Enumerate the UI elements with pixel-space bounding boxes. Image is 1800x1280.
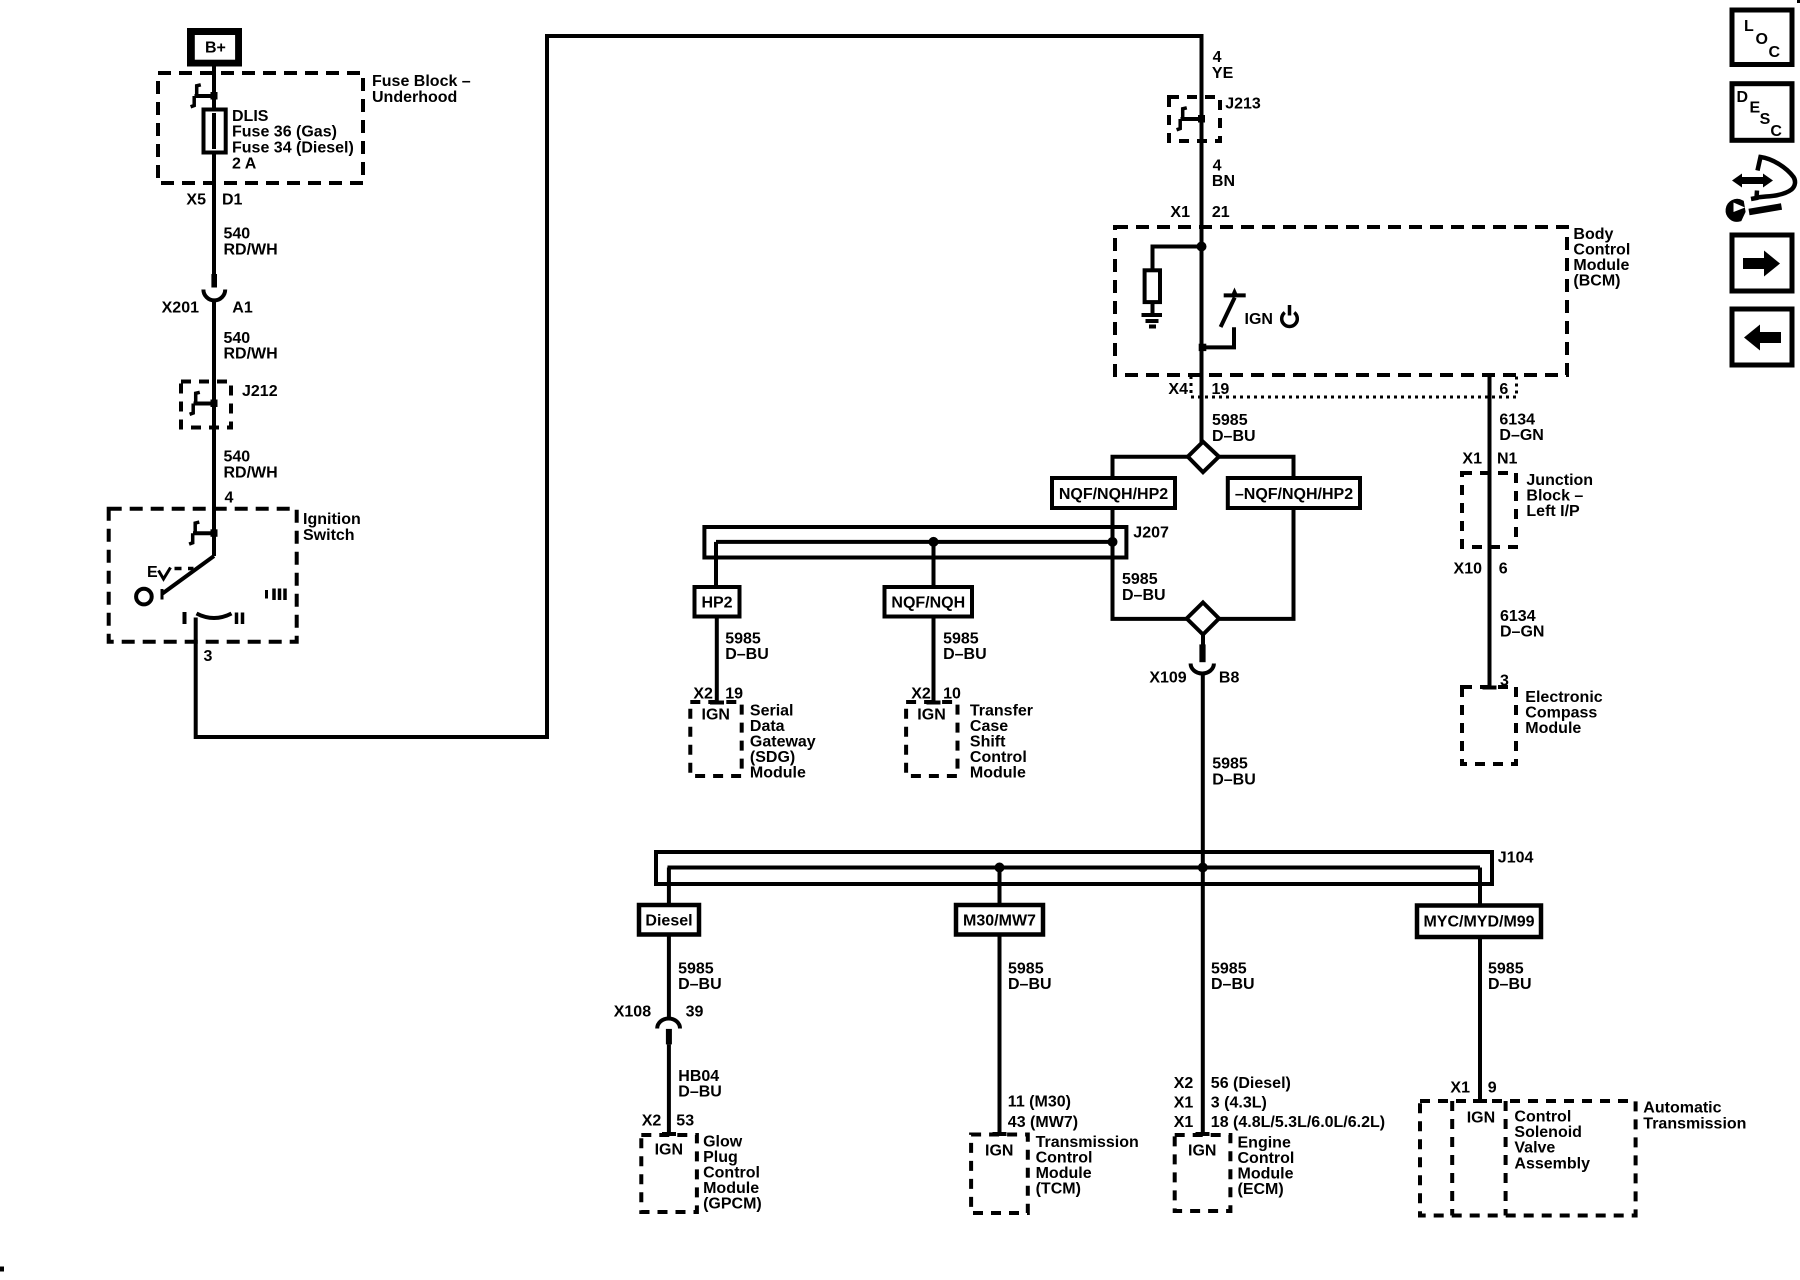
svg-text:D–GN: D–GN [1500,624,1544,641]
svg-text:Left I/P: Left I/P [1526,503,1580,520]
ECM label [1238,1134,1295,1198]
svg-text:Control: Control [1514,1109,1571,1126]
svg-text:Gateway: Gateway [750,733,816,750]
svg-text:10: 10 [943,686,961,703]
svg-text:NQF/NQH/HP2: NQF/NQH/HP2 [1059,486,1168,503]
wire J104 right end to MYC box [1478,868,1482,906]
svg-text:L: L [1744,18,1754,35]
option box Diesel [639,905,699,935]
svg-text:Module: Module [1573,257,1629,274]
svg-text:J207: J207 [1133,525,1169,542]
sidebar next arrow icon [1732,235,1792,291]
svg-text:Plug: Plug [703,1149,738,1166]
splice diamond node upper [1188,442,1219,473]
svg-text:YE: YE [1212,65,1234,82]
svg-text:MYC/MYD/M99: MYC/MYD/M99 [1423,914,1534,931]
svg-text:Shift: Shift [970,733,1006,750]
automatic transmission dashed box [1420,1101,1636,1216]
svg-text:Assembly: Assembly [1514,1155,1590,1172]
svg-text:C: C [1770,123,1782,140]
ECM terminal bar [1196,1132,1210,1136]
wire X201 to J212 [212,300,216,428]
wire J213 to BCM (4 BN) [1200,141,1204,227]
svg-text:X2: X2 [1174,1075,1194,1092]
wiper track arc I to II [197,614,232,619]
switch travel dashes [175,567,182,571]
svg-text:(ECM): (ECM) [1238,1181,1284,1198]
svg-text:(TCM): (TCM) [1036,1180,1081,1197]
BCM label [1573,226,1630,290]
ground [1142,315,1163,327]
svg-text:RD/WH: RD/WH [224,346,278,363]
svg-text:39: 39 [686,1004,704,1021]
svg-text:21: 21 [1212,204,1230,221]
svg-text:IGN: IGN [1245,311,1273,328]
solenoid terminal bar [1473,1099,1487,1103]
inline connector X109 pin B8 [1191,635,1214,674]
svg-text:D–BU: D–BU [1008,976,1052,993]
splice J213 dashed box [1169,97,1220,141]
glow plug control module dashed box [641,1135,697,1212]
svg-text:X2: X2 [911,686,931,703]
SDG module label [750,702,816,781]
svg-text:3 (4.3L): 3 (4.3L) [1211,1095,1267,1112]
wire Diesel box to X108 [667,935,671,1019]
svg-text:Case: Case [970,718,1008,735]
option box HP2 [695,587,740,617]
svg-text:Engine: Engine [1238,1134,1291,1151]
svg-text:–NQF/NQH/HP2: –NQF/NQH/HP2 [1235,486,1353,503]
svg-text:NQF/NQH: NQF/NQH [891,595,965,612]
svg-text:Solenoid: Solenoid [1514,1124,1582,1141]
svg-text:Control: Control [970,749,1027,766]
control solenoid valve assembly label [1514,1109,1590,1173]
wire X109 to J104 and ECM [1201,673,1205,1134]
svg-text:5985: 5985 [1212,412,1248,429]
svg-text:2 A: 2 A [232,155,257,172]
BCM pin 6 wire 6134 D-GN [1488,375,1492,473]
svg-text:5985: 5985 [1122,571,1158,588]
svg-text:D–BU: D–BU [1212,428,1256,445]
svg-text:D–BU: D–BU [678,976,722,993]
wire ignition switch pin 3 loop to BCM feed (4 YE) [196,36,1202,737]
TCSCM terminal bar [927,701,941,705]
svg-text:IGN: IGN [1467,1110,1495,1127]
switch pivot circle [136,589,152,605]
GPCM label [703,1134,762,1213]
svg-text:Electronic: Electronic [1525,689,1602,706]
svg-text:6: 6 [1499,560,1508,577]
svg-text:5985: 5985 [1211,960,1247,977]
svg-text:D1: D1 [222,191,243,208]
svg-text:X10: X10 [1454,560,1483,577]
resistor (BCM internal pull) [1145,270,1160,302]
svg-text:B8: B8 [1219,670,1240,687]
svg-text:53: 53 [676,1112,694,1129]
wire J212 to ignition switch [212,428,216,534]
svg-text:X1: X1 [1462,450,1482,467]
svg-text:X108: X108 [614,1004,651,1021]
J104 internal bus wire [668,866,1481,870]
solenoid inner dashed partition 1 [1450,1101,1454,1216]
svg-text:540: 540 [224,226,251,243]
svg-text:Control: Control [1036,1149,1093,1166]
option box -NQF/NQH/HP2 [1228,478,1360,508]
wire B+ to fuse DLIS (540 circuit) [212,67,216,275]
fuse DLIS Fuse 36 (Gas) / Fuse 34 (Diesel) 2A [204,110,226,153]
page corner marks [0,1267,4,1272]
fuse value label [232,108,354,172]
wire J207 to NQF/NQH box [932,542,936,587]
svg-text:N1: N1 [1497,450,1518,467]
terminal symbol at fuse block feed [191,85,218,107]
svg-text:D–BU: D–BU [725,646,769,663]
svg-text:Module: Module [1036,1165,1092,1182]
option box NQF/NQH/HP2 [1052,478,1175,508]
svg-text:5985: 5985 [1488,960,1524,977]
svg-text:Compass: Compass [1525,704,1597,721]
svg-text:5985: 5985 [725,631,761,648]
wire diamond left arm [1113,457,1188,478]
terminal symbol at ignition switch pin 4 [189,522,217,544]
svg-text:X1: X1 [1170,204,1190,221]
svg-text:540: 540 [224,330,251,347]
svg-text:Glow: Glow [703,1134,743,1151]
electronic compass module dashed box [1462,687,1516,764]
svg-text:HB04: HB04 [678,1068,719,1085]
svg-text:540: 540 [224,449,251,466]
svg-text:11 (M30): 11 (M30) [1008,1094,1071,1111]
sidebar back arrow icon [1732,309,1792,365]
fuse block underhood dashed box [158,73,363,183]
svg-text:BN: BN [1212,173,1235,190]
position III marks [265,590,268,599]
svg-text:Module: Module [750,764,806,781]
svg-text:J212: J212 [242,383,278,400]
terminal symbol in J212 [190,392,218,414]
svg-text:43 (MW7): 43 (MW7) [1008,1114,1078,1131]
svg-text:Serial: Serial [750,702,794,719]
transmission control module dashed box [971,1135,1028,1214]
sidebar jump-to icon (arrows and wrench) [1728,157,1795,219]
TCM label [1036,1134,1139,1198]
svg-text:X4: X4 [1168,381,1188,398]
wire junction block to compass module [1488,547,1492,687]
svg-text:J104: J104 [1498,850,1534,867]
compass module label [1525,689,1602,737]
ignition switch blade [212,535,216,556]
splice pack J104 bus bar [656,852,1492,884]
wire -NQF/NQH/HP2 down to diamond lower [1219,508,1294,619]
svg-text:D–BU: D–BU [1212,771,1256,788]
node J104 tap main [1198,863,1208,873]
option box M30/MW7 [956,905,1043,935]
BCM connector face dotted strip [1191,376,1517,397]
wire diamond right arm [1219,457,1294,478]
svg-text:Switch: Switch [303,527,355,544]
svg-text:Control: Control [703,1165,760,1182]
svg-text:Block –: Block – [1526,488,1583,505]
svg-text:6134: 6134 [1499,412,1535,429]
svg-text:Automatic: Automatic [1643,1100,1721,1117]
svg-text:IGN: IGN [985,1142,1013,1159]
svg-text:J213: J213 [1225,96,1261,113]
svg-text:Junction: Junction [1526,472,1593,489]
solenoid inner dashed partition 2 [1504,1101,1508,1216]
svg-text:4: 4 [225,490,234,507]
wire BCM X4-19 to splice diamond (5985 D-BU) [1200,375,1204,443]
svg-text:E: E [147,564,158,581]
wire resistor to ground [1151,302,1155,313]
svg-text:19: 19 [725,686,743,703]
svg-text:IGN: IGN [917,706,945,723]
wire HP2 to SDG module [715,617,719,703]
ignition switch dashed box [109,509,297,642]
svg-text:S: S [1760,111,1771,128]
svg-text:56 (Diesel): 56 (Diesel) [1211,1075,1291,1092]
svg-text:Ignition: Ignition [303,511,361,528]
terminal symbol in J213 [1177,108,1205,130]
svg-text:D–BU: D–BU [943,646,987,663]
svg-text:9: 9 [1488,1080,1497,1097]
svg-text:D–BU: D–BU [1211,976,1255,993]
wire J207 to HP2 box [714,542,718,587]
splice pack J207 bus bar [704,527,1126,558]
svg-text:HP2: HP2 [701,595,732,612]
sidebar DESC icon [1732,84,1792,141]
wire J104 left end to Diesel box [667,868,671,906]
transfer case shift control module dashed box [906,702,957,776]
svg-text:5985: 5985 [943,631,979,648]
svg-text:X2: X2 [693,686,713,703]
compass module terminal bar [1483,686,1497,690]
option box NQF/NQH [885,587,973,617]
sidebar LOC icon [1732,10,1792,65]
contact position I tick [183,612,187,624]
serial data gateway module dashed box [690,702,741,776]
svg-text:19: 19 [1212,381,1230,398]
body control module BCM dashed box [1115,227,1567,375]
svg-text:Transfer: Transfer [970,702,1033,719]
wire M30/MW7 box to TCM [998,935,1002,1134]
svg-text:D–GN: D–GN [1499,427,1543,444]
J207 internal bus wire [716,540,1113,544]
junction block left I/P dashed box [1462,473,1516,547]
svg-text:X1: X1 [1450,1080,1470,1097]
svg-text:5985: 5985 [1008,960,1044,977]
svg-text:Control: Control [1238,1150,1295,1167]
svg-text:D–BU: D–BU [678,1084,722,1101]
svg-text:Fuse Block –: Fuse Block – [372,73,471,90]
wire X108 to GPCM (HB04 D-BU) [667,1044,671,1133]
splice J212 dashed box [181,382,231,428]
TCM terminal bar [993,1132,1007,1136]
GPCM terminal bar [662,1132,676,1136]
svg-text:O: O [1756,31,1768,48]
svg-text:3: 3 [204,648,213,665]
svg-text:Data: Data [750,718,785,735]
svg-text:X1: X1 [1174,1114,1194,1131]
BCM internal IGN switch symbol [1199,288,1246,352]
splice diamond node lower [1187,603,1219,635]
svg-text:IGN: IGN [702,706,730,723]
node J207 tap 2 [1108,537,1118,547]
svg-text:Valve: Valve [1514,1140,1555,1157]
svg-text:Control: Control [1573,242,1630,259]
wire through junction block [1488,473,1492,547]
wire through BCM [1200,227,1204,375]
node J104 tap M30/MW7 [995,863,1005,873]
svg-text:(SDG): (SDG) [750,749,795,766]
TCSCM label [970,702,1033,781]
svg-text:A1: A1 [232,299,253,316]
svg-text:X2: X2 [642,1112,662,1129]
svg-text:5985: 5985 [678,960,714,977]
svg-text:Diesel: Diesel [645,913,692,930]
svg-text:Body: Body [1573,226,1613,243]
svg-text:6134: 6134 [1500,608,1536,625]
svg-text:RD/WH: RD/WH [224,465,278,482]
wire J104 to M30/MW7 box [998,868,1002,906]
inline connector X201 pin A1 [203,274,225,300]
svg-text:5985: 5985 [1212,756,1248,773]
wire MYC box to control solenoid assembly [1478,937,1482,1101]
battery feed B+ terminal box [187,28,242,67]
svg-text:Fuse 34 (Diesel): Fuse 34 (Diesel) [232,139,354,156]
inline connector X108 pin 39 [657,1019,680,1045]
svg-text:Fuse 36 (Gas): Fuse 36 (Gas) [232,124,337,141]
automatic transmission label [1643,1100,1746,1133]
svg-text:(GPCM): (GPCM) [703,1196,762,1213]
svg-text:(BCM): (BCM) [1573,273,1620,290]
svg-text:Module: Module [970,764,1026,781]
svg-text:D–BU: D–BU [1122,587,1166,604]
position II ticks [235,613,239,625]
wire NQF/NQH to transfer case module [932,617,936,703]
svg-text:IGN: IGN [655,1142,683,1159]
node junction in BCM [1197,242,1207,252]
svg-text:4: 4 [1213,49,1222,66]
svg-text:B+: B+ [205,40,226,57]
svg-text:Transmission: Transmission [1036,1134,1139,1151]
wire branch to resistor [1153,247,1202,271]
svg-text:Module: Module [1238,1165,1294,1182]
pin labels at ECM [1174,1075,1385,1131]
junction block label [1526,472,1593,520]
power icon [1282,305,1298,327]
svg-text:Module: Module [703,1180,759,1197]
svg-text:M30/MW7: M30/MW7 [963,913,1036,930]
svg-text:C: C [1769,44,1781,61]
engine control module dashed box [1175,1135,1231,1211]
svg-text:D–BU: D–BU [1488,976,1532,993]
svg-text:X5: X5 [186,191,206,208]
svg-text:6: 6 [1499,381,1508,398]
svg-text:Module: Module [1525,720,1581,737]
option box MYC/MYD/M99 [1417,906,1541,938]
svg-text:18 (4.8L/5.3L/6.0L/6.2L): 18 (4.8L/5.3L/6.0L/6.2L) [1211,1114,1385,1131]
svg-text:Transmission: Transmission [1643,1115,1746,1132]
svg-text:D: D [1737,89,1749,106]
svg-text:DLIS: DLIS [232,108,269,125]
svg-text:Underhood: Underhood [372,89,457,106]
svg-text:X1: X1 [1174,1095,1194,1112]
node J207 tap 1 [929,537,939,547]
svg-text:X109: X109 [1149,670,1186,687]
svg-text:IGN: IGN [1188,1143,1216,1160]
SDG module terminal bar [710,701,724,705]
svg-text:RD/WH: RD/WH [224,242,278,259]
svg-text:X201: X201 [162,299,199,316]
wire NQF/NQH/HP2 down through J207 to diamond lower [1113,508,1187,619]
